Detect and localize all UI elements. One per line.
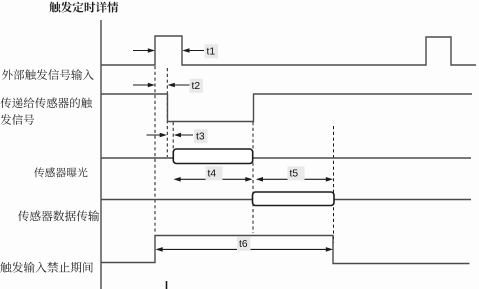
vertical axis line	[100, 20, 102, 289]
dashed guide at sensor-trigger falling edge x=167	[166, 68, 168, 157]
dashed guide at data end x=333	[333, 126, 335, 243]
waveform: external trigger input	[101, 36, 476, 65]
waveform: trigger signal to sensor	[101, 94, 472, 122]
t3 annotation	[147, 134, 165, 136]
sensor data transfer box	[253, 192, 335, 206]
t6 annotation	[158, 248, 332, 250]
svg-text:t1: t1	[207, 47, 216, 58]
t5 annotation	[258, 178, 331, 180]
t1 annotation	[133, 50, 153, 52]
svg-text:t6: t6	[239, 239, 248, 250]
t2 annotation	[133, 84, 153, 86]
svg-text:t5: t5	[290, 169, 299, 180]
waveform: sensor exposure baseline	[101, 157, 471, 159]
label 传递给传感器的触	[1, 98, 92, 109]
label 传感器曝光	[34, 167, 87, 177]
svg-text:t4: t4	[208, 169, 217, 180]
axis bottom tick	[166, 281, 168, 289]
svg-text:t2: t2	[192, 81, 201, 92]
t4 annotation	[176, 178, 251, 180]
waveform: trigger inhibit period	[101, 236, 470, 264]
dashed guide at trigger rising edge x=155	[154, 66, 156, 233]
label 传感器数据传输	[18, 210, 99, 221]
sensor exposure box	[173, 149, 252, 164]
svg-text:t3: t3	[196, 132, 205, 143]
dashed guide at exposure start x=173	[172, 122, 174, 157]
label 发信号	[1, 114, 35, 125]
title 触发定时详情	[49, 2, 118, 13]
label 外部触发信号输入	[2, 69, 94, 80]
dashed guide at exposure end / data start x=253	[252, 122, 254, 233]
label 触发输入禁止期间	[1, 262, 93, 273]
waveform: sensor data transfer baseline	[101, 199, 471, 201]
